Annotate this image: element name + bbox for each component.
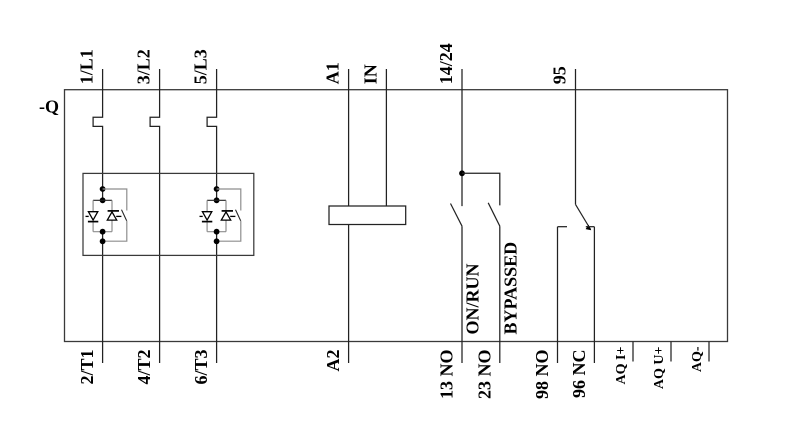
contact: L1 internal bypass blade (122, 210, 127, 221)
wire phase 1/L1 upper lead with disconnect notch (93, 69, 103, 200)
wire: L1 right thyristor rail (111, 200, 113, 231)
wire: L1 thyristor branch bottom rail (93, 231, 112, 233)
node: L1 bottom junction (100, 238, 106, 244)
thyristor L3 right (cathode up) (221, 211, 235, 220)
wire branch to 23/24 contact (462, 173, 500, 205)
node: 14/24 branch junction (459, 170, 465, 176)
svg-text:6/T3: 6/T3 (191, 350, 211, 385)
contact 96 NC fixed tick (586, 226, 595, 228)
wire: L3 right thyristor rail (225, 200, 227, 231)
node: phase L3 top junction (214, 186, 220, 192)
contact 98 NO fixed tick (558, 226, 568, 228)
wire: L3 bypass branch bottom (217, 221, 241, 241)
svg-text:ON/RUN: ON/RUN (463, 264, 483, 335)
node: L3 thyristor branch top junction (214, 197, 220, 203)
svg-text:A2: A2 (323, 350, 343, 372)
svg-text:23 NO: 23 NO (474, 350, 494, 400)
coil U1 (control supply block) (329, 206, 406, 225)
node: L3 thyristor branch bottom junction (214, 229, 220, 235)
thyristor L1 left (cathode down) (86, 212, 99, 222)
wire: L1 thyristor branch top rail (93, 199, 112, 201)
svg-text:AQ I+: AQ I+ (614, 346, 629, 384)
wire: L3 bypass branch top (217, 189, 241, 211)
wire: L1 left thyristor rail (92, 200, 94, 231)
svg-text:4/T2: 4/T2 (134, 350, 154, 385)
svg-text:96 NC: 96 NC (569, 350, 589, 399)
wire phase 2/T1 lower lead (102, 232, 104, 363)
contact blade arrow tip (586, 225, 592, 231)
node: L3 bottom junction (214, 238, 220, 244)
wire A1 lead (348, 69, 350, 206)
wire 96 NC lead (593, 227, 595, 363)
wire 13 NO lead (461, 226, 463, 363)
svg-text:AQ-: AQ- (690, 346, 705, 372)
wire: L3 thyristor branch bottom rail (207, 231, 226, 233)
wire 98 NO lead (557, 227, 559, 363)
wire 95 lead (575, 69, 577, 204)
wire: L3 left thyristor rail (206, 200, 208, 231)
wire 23 NO lead (499, 226, 501, 363)
wire 14/24 lead (461, 69, 463, 206)
wire AQ- stub (708, 342, 710, 362)
wire AQ I+ stub (632, 342, 634, 362)
svg-text:98 NO: 98 NO (532, 350, 552, 400)
wire: L1 bypass branch bottom (103, 221, 127, 241)
thyristor power module box (83, 173, 254, 255)
contact blade 95 changeover (576, 204, 591, 229)
svg-text:-Q: -Q (39, 97, 59, 117)
wire phase 3/L2 to 4/T2 with disconnect notch (150, 69, 160, 363)
thyristor L1 right (cathode up) (107, 211, 121, 220)
soft starter enclosure box -Q (65, 90, 728, 342)
wire: L3 thyristor branch top rail (207, 199, 226, 201)
contact: L3 internal bypass blade (236, 210, 241, 221)
svg-text:13 NO: 13 NO (437, 350, 457, 400)
node: L1 thyristor branch top junction (100, 197, 106, 203)
svg-text:1/L1: 1/L1 (77, 49, 97, 84)
wire: L1 bypass branch top (103, 189, 127, 211)
wire A2 lead (348, 225, 350, 364)
wire phase 6/T3 lower lead (216, 232, 218, 363)
contact blade BYPASSED (23-24 NO) (488, 203, 500, 227)
thyristor L3 left (cathode down) (200, 212, 213, 222)
wire AQ U+ stub (670, 342, 672, 362)
wire phase 5/L3 upper lead with disconnect notch (207, 69, 217, 200)
node: phase L1 top junction (100, 186, 106, 192)
wire IN lead (385, 69, 387, 206)
svg-text:2/T1: 2/T1 (77, 350, 97, 385)
svg-text:3/L2: 3/L2 (134, 49, 154, 84)
svg-text:AQ U+: AQ U+ (652, 346, 667, 389)
svg-text:A1: A1 (323, 62, 343, 84)
svg-text:IN: IN (360, 64, 380, 84)
svg-text:5/L3: 5/L3 (191, 49, 211, 84)
svg-text:95: 95 (550, 66, 570, 84)
contact blade ON/RUN (13-14 NO) (451, 204, 463, 227)
node: L1 thyristor branch bottom junction (100, 229, 106, 235)
svg-text:BYPASSED: BYPASSED (501, 242, 521, 335)
svg-text:14/24: 14/24 (436, 43, 456, 84)
